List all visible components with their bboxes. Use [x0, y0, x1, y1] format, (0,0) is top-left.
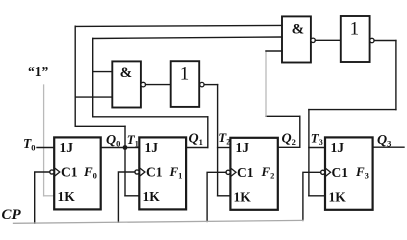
node T3 label	[311, 130, 323, 147]
svg-text:1K: 1K	[329, 190, 347, 205]
wire T3 to 1K input of F3	[309, 195, 325, 197]
svg-text:T1: T1	[127, 132, 139, 149]
flip-flop F1 clock wedge	[139, 168, 145, 177]
flip-flop F3 pin label C1	[332, 165, 349, 180]
svg-text:Q0: Q0	[106, 133, 120, 149]
wire CP to C1 of F3	[303, 172, 321, 220]
node T2 label	[218, 130, 230, 147]
wire Q0 top rail to AND gate D3 input 1	[75, 25, 282, 26]
flip-flop F0 pin label 1K	[58, 189, 76, 204]
wire Q0 to 1K input of F1	[125, 195, 139, 197]
svg-text:Q2: Q2	[282, 132, 296, 148]
wire T3 to 1J input of F3	[309, 147, 325, 149]
wire Q1 from F1 to riser	[186, 147, 208, 149]
svg-text:1: 1	[180, 63, 190, 84]
node Q1 label	[189, 132, 203, 148]
wire Q0 branch to AND gate D1 lower input	[75, 96, 112, 98]
wire Q2 feedback horizontal	[266, 115, 300, 117]
flip-flop F0 clock bubble	[50, 170, 54, 174]
svg-text:1J: 1J	[145, 140, 159, 155]
wire Q1 feedback horizontal to left riser	[93, 116, 208, 118]
svg-text:C1: C1	[237, 165, 254, 180]
svg-text:1J: 1J	[60, 140, 74, 155]
flip-flop F3 clock bubble	[321, 170, 325, 174]
flip-flop F1 name label F1	[169, 164, 183, 181]
flip-flop F1 pin label 1J	[145, 140, 159, 155]
buffer D2 label 1	[180, 63, 190, 84]
AND gate D3 box	[282, 16, 311, 62]
wire "1" vertical drop to K of F0 (gray)	[43, 85, 45, 196]
wire feedback horizontal to T3 riser	[309, 109, 396, 111]
wire Q0 from F0 to F1 (J input)	[101, 147, 140, 149]
AND gate D3 label &	[292, 22, 305, 38]
wire Q0 left riser up to top rail	[74, 26, 76, 126]
svg-text:F0: F0	[83, 164, 97, 181]
flip-flop F2 clock wedge	[230, 168, 236, 177]
wire CP to C1 of F1	[118, 172, 134, 222]
svg-text:C1: C1	[146, 165, 163, 180]
svg-text:F1: F1	[169, 164, 183, 181]
flip-flop F0 box	[54, 137, 100, 209]
svg-text:T2: T2	[218, 130, 230, 147]
flip-flop F0 clock wedge	[54, 168, 60, 177]
wire D2 output to T2 riser	[204, 84, 218, 86]
wire Q3 output	[373, 146, 404, 148]
flip-flop F3 pin label 1K	[329, 190, 347, 205]
wire Q1 left riser up to inner top rail	[92, 38, 94, 116]
svg-text:1: 1	[350, 18, 360, 39]
wire Q2 left riser up to D3 input (gray)	[265, 51, 267, 116]
wire "1" to 1K input of F0 (gray)	[44, 195, 55, 197]
svg-text:C1: C1	[332, 165, 349, 180]
wire T2 riser down to 1K of F2	[217, 85, 219, 196]
flip-flop F3 box	[325, 137, 373, 209]
wire D4 output to right riser	[374, 40, 396, 42]
svg-text:&: &	[120, 65, 133, 81]
flip-flop F0 name label F0	[83, 164, 97, 181]
svg-text:T0: T0	[23, 136, 36, 153]
wire D3 output to buffer D4	[315, 39, 341, 41]
wire Q0 node vertical: up to feedback, down to 1K of F1	[124, 126, 126, 196]
buffer D4 output bubble	[370, 38, 374, 42]
wire Q0 feedback horizontal to left riser	[75, 125, 125, 127]
buffer D4 label 1	[350, 18, 360, 39]
wire T0 to 1J input of F0	[37, 147, 54, 149]
AND gate D1 label &	[120, 65, 133, 81]
junction dot at Q0 node	[123, 145, 128, 150]
flip-flop F2 pin label 1K	[234, 190, 252, 205]
flip-flop F1 pin label C1	[146, 165, 163, 180]
buffer D4 box	[341, 16, 370, 62]
node "1" constant label	[28, 64, 49, 79]
wire Q2 to AND gate D3 input 3	[266, 50, 282, 52]
AND gate D1 output bubble	[141, 82, 146, 87]
wire Q1 riser up	[207, 117, 209, 148]
flip-flop F2 box	[230, 138, 277, 210]
buffer D2 box	[171, 61, 200, 107]
flip-flop F2 name label F2	[261, 164, 275, 181]
flip-flop F0 pin label 1J	[60, 140, 74, 155]
svg-text:1J: 1J	[331, 140, 345, 155]
svg-text:&: &	[292, 22, 305, 38]
flip-flop F2 pin label 1J	[236, 140, 250, 155]
wire Q2 riser up	[299, 116, 301, 147]
flip-flop F2 clock bubble	[226, 170, 230, 174]
flip-flop F3 clock wedge	[325, 168, 331, 177]
svg-text:1K: 1K	[234, 190, 252, 205]
wire T2 to 1J input of F2	[218, 147, 231, 149]
wire Q2 from F2 to riser	[278, 146, 300, 148]
flip-flop F1 pin label 1K	[143, 189, 161, 204]
flip-flop F3 pin label 1J	[331, 140, 345, 155]
wire right riser down	[395, 41, 397, 110]
node T0 label	[23, 136, 36, 153]
AND gate D1 box	[112, 61, 141, 107]
node Q3 label	[377, 133, 391, 149]
buffer D2 output bubble	[200, 82, 204, 86]
node Q0 label	[106, 133, 120, 149]
svg-text:F2: F2	[261, 164, 275, 181]
node CP label	[2, 207, 22, 223]
flip-flop F0 pin label C1	[61, 165, 78, 180]
AND gate D3 output bubble	[311, 38, 315, 42]
svg-text:CP: CP	[2, 207, 22, 223]
svg-text:T3: T3	[311, 130, 323, 147]
node Q2 label	[282, 132, 296, 148]
svg-text:1J: 1J	[236, 140, 250, 155]
svg-text:F3: F3	[355, 164, 369, 181]
flip-flop F1 box	[139, 137, 186, 209]
svg-text:Q1: Q1	[189, 132, 203, 148]
svg-text:“1”: “1”	[28, 64, 49, 79]
wire Q1 branch to AND gate D1 upper input	[93, 71, 113, 73]
svg-text:1K: 1K	[143, 189, 161, 204]
svg-text:Q3: Q3	[377, 133, 391, 149]
node T1 label	[127, 132, 139, 149]
wire T3 riser down to 1K of F3	[308, 110, 310, 196]
svg-text:C1: C1	[61, 165, 78, 180]
wire D1 output to buffer D2	[146, 84, 171, 86]
wire CP to C1 of F2	[207, 172, 226, 221]
wire Q1 inner top rail to AND gate D3 input 2	[93, 37, 282, 39]
flip-flop F3 name label F3	[355, 164, 369, 181]
wire CP clock rail (gray)	[14, 220, 303, 223]
flip-flop F1 clock bubble	[135, 170, 139, 174]
flip-flop F2 pin label C1	[237, 165, 254, 180]
wire CP to C1 of F0	[35, 172, 50, 223]
svg-text:1K: 1K	[58, 189, 76, 204]
wire T2 to 1K input of F2	[218, 195, 231, 197]
